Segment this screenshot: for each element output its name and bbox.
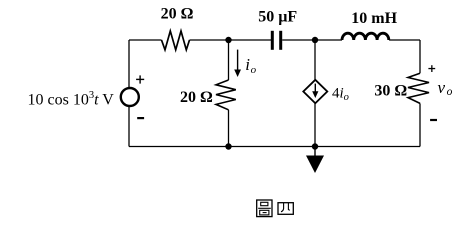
node A junction dot (225, 37, 231, 43)
wire left rail upper (128, 40, 130, 88)
wire middle branch 2 upper (314, 40, 316, 80)
wire bottom rail (129, 146, 420, 148)
source V1 plus sign (136, 75, 144, 83)
ground symbol (306, 156, 324, 174)
dependent current source U1 diamond (303, 80, 327, 104)
dependent source arrow (314, 84, 316, 93)
node D junction dot (312, 143, 318, 149)
node C junction dot (225, 143, 231, 149)
vo plus sign (428, 65, 435, 72)
node B junction dot (312, 37, 318, 43)
caption figure four glyph tu (257, 200, 272, 217)
vo minus sign (430, 119, 437, 121)
svg-text:10 mH: 10 mH (351, 10, 397, 27)
resistor R1 20 ohm horizontal (162, 31, 190, 50)
resistor R3 30 ohm vertical (408, 73, 429, 103)
svg-text:50 µF: 50 µF (258, 8, 297, 25)
svg-text:20 Ω: 20 Ω (161, 6, 194, 23)
wire right rail lower (419, 103, 421, 146)
wire middle branch 2 lower (314, 103, 316, 146)
current io arrow (237, 50, 239, 71)
ground stub wire (314, 147, 316, 157)
wire right rail upper (419, 40, 421, 73)
wire left rail lower (128, 106, 130, 147)
svg-text:10 cos 103t V: 10 cos 103t V (28, 90, 115, 108)
inductor L1 10mH (342, 33, 389, 40)
resistor R2 20 ohm vertical (216, 80, 236, 110)
source V1 minus sign (137, 117, 144, 119)
capacitor C1 50uF plates (271, 31, 274, 50)
wire top rail left segment (129, 39, 162, 41)
svg-text:20 Ω: 20 Ω (180, 89, 213, 106)
wire top rail between R1 and capacitor (190, 39, 272, 41)
wire top rail between capacitor and inductor (282, 39, 342, 41)
source V1 circle (121, 88, 139, 106)
wire top rail right segment (389, 39, 420, 41)
caption figure four glyph si (278, 203, 293, 215)
wire middle branch 1 lower (228, 110, 230, 147)
svg-text:30 Ω: 30 Ω (374, 83, 407, 100)
wire middle branch 1 upper (228, 40, 230, 80)
